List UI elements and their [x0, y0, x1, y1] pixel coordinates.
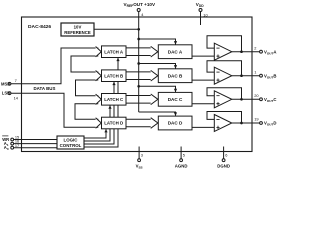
- wire bus loop latch C to latch D: [75, 104, 98, 120]
- DAC A: [158, 45, 192, 59]
- logic control block: [57, 136, 84, 149]
- wire latch A to DAC A bus: [126, 48, 153, 56]
- terminal LSB pin 14: [2, 91, 19, 101]
- latch B input bus arrow: [96, 71, 102, 81]
- svg-text:AGND: AGND: [175, 164, 188, 169]
- svg-text:LOGIC: LOGIC: [64, 138, 79, 143]
- arrowhead into DAC B top: [174, 65, 177, 69]
- svg-text:DGND: DGND: [217, 164, 230, 169]
- terminal MSB pin 7: [1, 78, 17, 87]
- outer chip boundary DAC-8426: [22, 17, 253, 152]
- junction op-amp B output: [240, 74, 243, 77]
- arrowhead into latch D bottom: [104, 129, 107, 132]
- wire DAC D output to op-amp D: [192, 126, 214, 128]
- wire MSB to latch A bus: [11, 48, 98, 84]
- svg-text:19: 19: [254, 117, 258, 122]
- svg-text:DATA BUS: DATA BUS: [34, 86, 56, 91]
- wire op-amp B output: [232, 75, 260, 77]
- svg-text:17: 17: [15, 143, 19, 148]
- latch C: [102, 94, 127, 106]
- latch A: [102, 46, 127, 58]
- junction op-amp C output: [240, 98, 243, 101]
- wire DAC C output to op-amp C: [192, 103, 214, 105]
- svg-text:REFERENCE: REFERENCE: [64, 30, 91, 35]
- arrowhead into DAC A top: [174, 41, 177, 45]
- DAC D: [158, 116, 192, 130]
- wire latch A enable from logic control: [84, 58, 119, 147]
- svg-text:LATCH A: LATCH A: [104, 49, 124, 54]
- wire latch B enable from logic control: [84, 82, 115, 144]
- svg-text:LATCH B: LATCH B: [104, 73, 123, 78]
- op-amp D feedback loop: [207, 112, 242, 124]
- svg-text:DAC-8426: DAC-8426: [28, 24, 51, 30]
- wire bus loop latch B to latch C: [76, 80, 99, 96]
- svg-text:7: 7: [15, 78, 17, 83]
- svg-text:DAC B: DAC B: [168, 73, 183, 78]
- terminal VOUTD pin 19: [254, 117, 276, 127]
- wire VREF branch to DAC A: [139, 39, 176, 45]
- wire op-amp C output: [232, 98, 260, 100]
- DAC A input bus arrow: [151, 46, 158, 57]
- arrowhead into latch A bottom: [116, 58, 119, 61]
- terminal WR pin 15: [2, 135, 57, 142]
- wire latch D to DAC D bus: [126, 119, 153, 127]
- latch C input bus arrow: [96, 94, 102, 104]
- junction on VREF rail at reference: [137, 28, 140, 31]
- svg-text:DAC A: DAC A: [168, 49, 183, 54]
- op-amp B feedback loop: [207, 61, 242, 76]
- wire LSB to latch D bus: [11, 93, 98, 127]
- DAC D input bus arrow: [151, 118, 158, 129]
- arrowhead into latch C bottom: [108, 105, 111, 108]
- latch D: [102, 117, 127, 129]
- svg-text:LATCH C: LATCH C: [104, 97, 124, 102]
- terminal VOUTC pin 20: [254, 93, 276, 103]
- terminal VREF OUT +10V pin 4: [124, 2, 156, 17]
- wire VREF branch to DAC B: [139, 64, 176, 69]
- op-amp C: [214, 91, 232, 108]
- svg-text:6: 6: [225, 153, 227, 158]
- svg-text:DAC C: DAC C: [168, 97, 183, 102]
- wire latch C to DAC C bus: [126, 96, 153, 104]
- wire DAC B output to op-amp B: [192, 79, 214, 81]
- op-amp C feedback loop: [207, 88, 242, 100]
- svg-text:1: 1: [254, 69, 256, 74]
- DAC B input bus arrow: [151, 70, 158, 81]
- wire bus loop latch A to latch B: [71, 56, 98, 72]
- wire VREF branch to DAC C: [139, 86, 176, 92]
- op-amp D: [214, 115, 232, 132]
- op-amp B: [214, 67, 232, 84]
- wire VREF rail vertical: [138, 12, 140, 113]
- DAC C: [158, 92, 192, 106]
- wire op-amp A output: [232, 51, 260, 53]
- wire reference output to rail: [94, 28, 139, 30]
- op-amp A feedback loop: [207, 36, 242, 52]
- terminal VOUTA pin 2: [254, 45, 276, 55]
- wire latch B to DAC B bus: [126, 72, 153, 80]
- op-amp A: [214, 43, 232, 60]
- wire op-amp D output: [232, 122, 260, 124]
- wire VREF branch to DAC D: [139, 112, 176, 116]
- terminal A1 pin 16: [4, 139, 57, 147]
- arrowhead into DAC C top: [174, 89, 177, 93]
- terminal AGND pin 5: [175, 147, 188, 169]
- latch A input bus arrow: [96, 47, 102, 57]
- arrowhead into latch B bottom: [112, 82, 115, 85]
- svg-text:CONTROL: CONTROL: [60, 143, 82, 148]
- svg-text:DAC D: DAC D: [168, 121, 183, 126]
- terminal VSS pin 3: [136, 147, 143, 170]
- latch B: [102, 70, 127, 82]
- wire DAC A output to op-amp A: [192, 55, 214, 57]
- DAC B: [158, 69, 192, 83]
- 10V reference block: [61, 23, 94, 36]
- terminal A0 pin 17: [4, 143, 57, 151]
- junction VREF rail row A: [137, 38, 140, 41]
- junction VREF rail row B: [137, 62, 140, 65]
- svg-text:5: 5: [183, 153, 185, 158]
- wire latch D enable from logic control: [84, 129, 107, 138]
- junction VREF rail row C: [137, 85, 140, 88]
- DAC C input bus arrow: [151, 94, 158, 105]
- wire latch C enable from logic control: [84, 106, 111, 142]
- arrowhead into DAC D top: [174, 112, 177, 116]
- terminal VOUTB pin 1: [254, 69, 276, 79]
- terminal DGND pin 6: [217, 147, 230, 169]
- latch D input bus arrow: [96, 118, 102, 128]
- svg-text:LATCH D: LATCH D: [104, 121, 123, 126]
- terminal VDD pin 10: [196, 2, 209, 25]
- junction op-amp D output: [240, 122, 243, 125]
- svg-text:3: 3: [141, 153, 143, 158]
- junction op-amp A output: [240, 50, 243, 53]
- svg-text:2: 2: [254, 45, 256, 50]
